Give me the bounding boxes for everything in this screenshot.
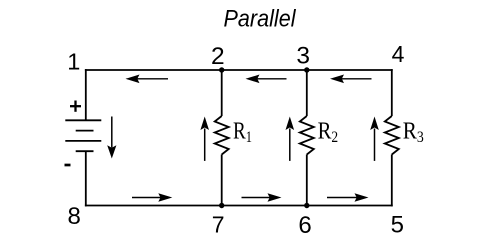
svg-text:2: 2 — [211, 43, 225, 70]
svg-text:3: 3 — [296, 43, 310, 70]
svg-text:7: 7 — [212, 212, 225, 238]
svg-text:1: 1 — [67, 48, 80, 74]
svg-text:5: 5 — [391, 211, 404, 238]
svg-text:Parallel: Parallel — [224, 6, 296, 33]
svg-text:4: 4 — [392, 41, 405, 67]
svg-text:6: 6 — [298, 212, 311, 239]
svg-text:8: 8 — [68, 203, 81, 230]
